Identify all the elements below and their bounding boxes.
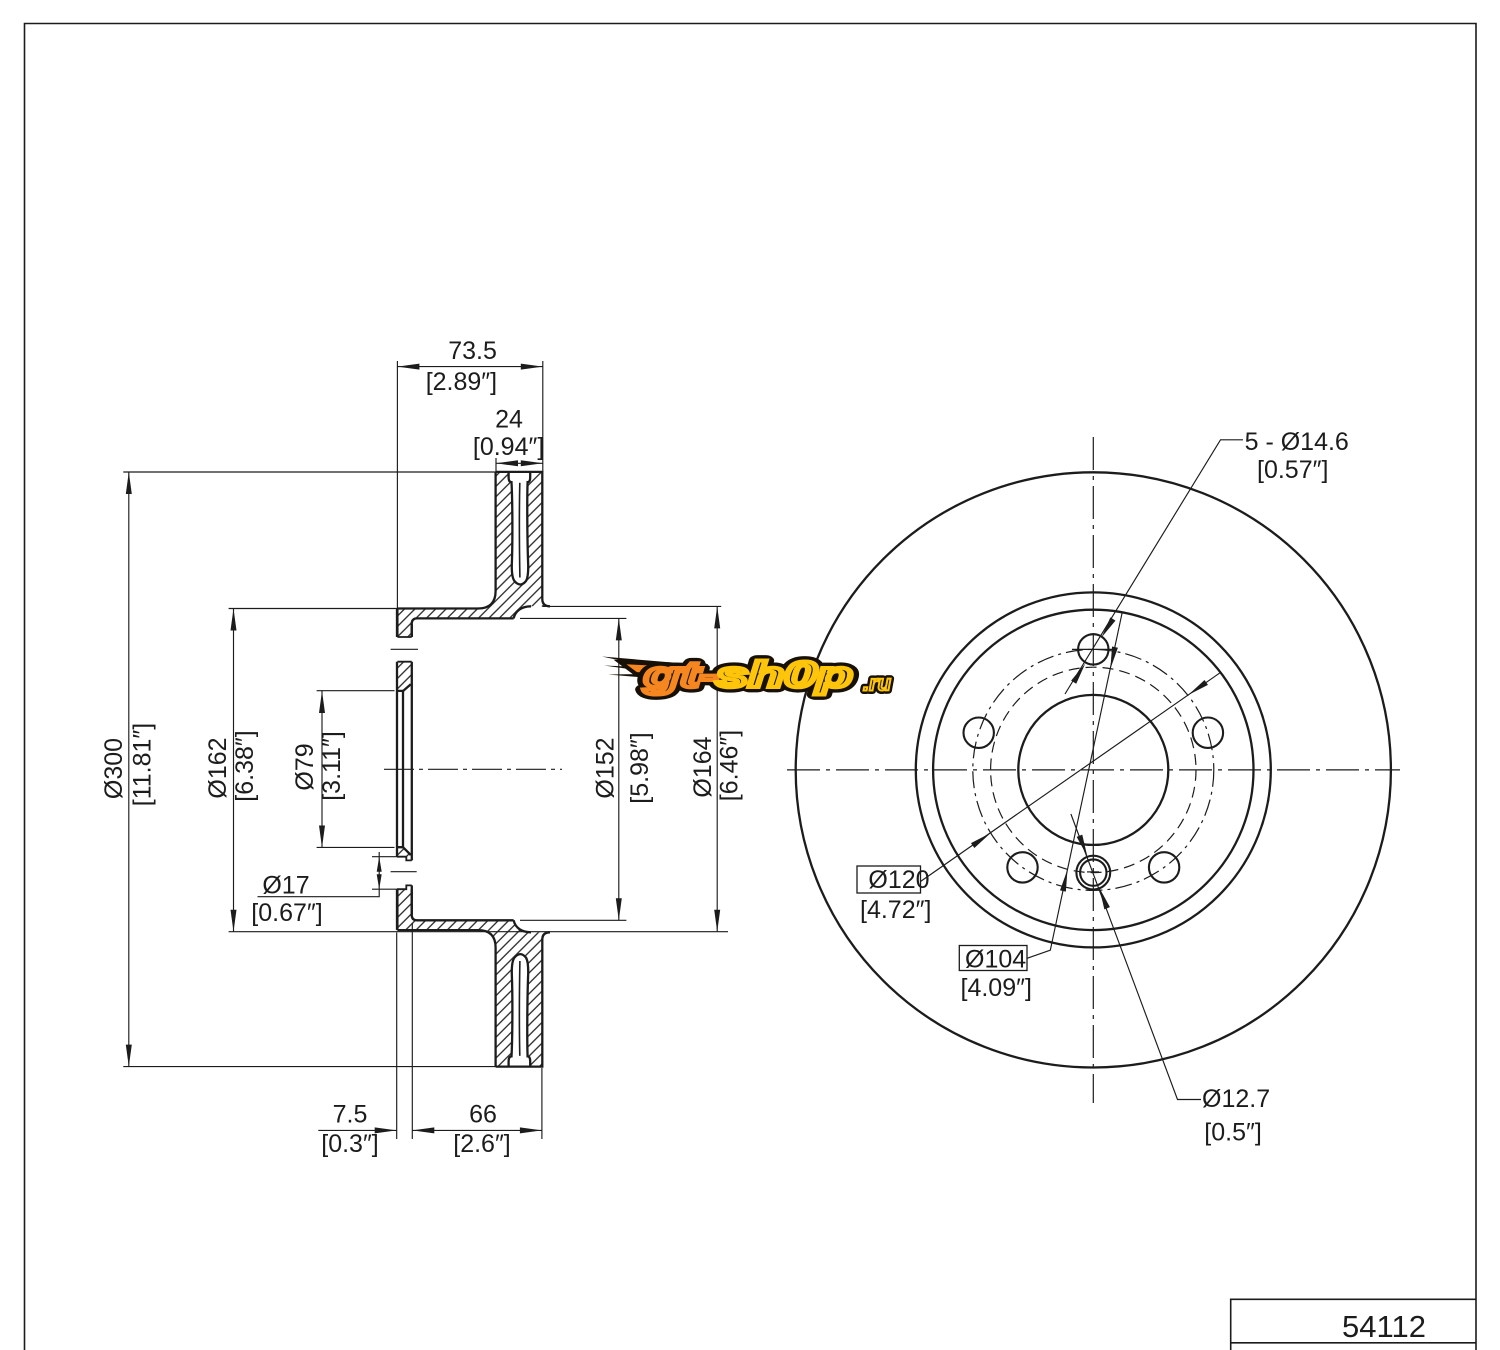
- svg-text:Ø164: Ø164: [689, 736, 717, 797]
- vane middle line top: [518, 483, 520, 578]
- svg-text:[11.81″]: [11.81″]: [129, 723, 157, 806]
- arrow O162 top: [231, 609, 237, 631]
- hub mounting face line: [396, 609, 398, 930]
- arrow 66 right: [520, 1127, 542, 1133]
- 66 dim line: [412, 1129, 542, 1131]
- svg-text:gt-: gt-: [643, 655, 719, 695]
- arrow O12.7 lower: [1096, 887, 1109, 910]
- Ø104 dashed circle: [991, 667, 1196, 872]
- set screw hole Ø17 outer: [1076, 856, 1110, 890]
- hatched metal: hub wall band above set screw hole (bottom): [397, 847, 412, 857]
- arrow 24 left: [496, 460, 518, 466]
- set screw hole edges: [397, 857, 412, 890]
- svg-text:Ø17: Ø17: [262, 871, 309, 899]
- Ø162 ext top: [229, 608, 398, 610]
- svg-text:Ø162: Ø162: [204, 737, 232, 798]
- svg-text:Ø120: Ø120: [868, 866, 929, 894]
- bolt hole lower-left: [1007, 852, 1037, 882]
- svg-text:[4.72″]: [4.72″]: [860, 896, 931, 924]
- svg-text:[6.46″]: [6.46″]: [716, 730, 744, 801]
- section outline top block: [397, 472, 550, 1067]
- svg-text:73.5: 73.5: [448, 337, 497, 365]
- svg-text:[6.38″]: [6.38″]: [231, 730, 259, 801]
- arrow O79 top: [319, 691, 325, 713]
- svg-text:Ø104: Ø104: [965, 946, 1026, 974]
- hub inner face line: [411, 624, 413, 915]
- arrow O12.7 upper: [1077, 835, 1090, 858]
- arrow O162 bottom: [231, 910, 237, 932]
- arrow O300 top: [126, 472, 132, 494]
- section centerline: [384, 768, 562, 770]
- bolt hole upper-left: [964, 718, 994, 748]
- friction ring inner circle 2 (Ø164): [933, 610, 1253, 930]
- ext line top Ø300: [123, 471, 543, 473]
- watermark orange wedge: [620, 662, 707, 680]
- svg-text:.ru: .ru: [863, 670, 892, 695]
- leader Ø120: [921, 673, 1221, 882]
- Ø17 dim line + leader: [258, 852, 380, 897]
- svg-text:Ø152: Ø152: [592, 737, 620, 798]
- watermark speed lines: [602, 657, 680, 679]
- arrow 5-O14.6 at hole top: [1099, 617, 1116, 639]
- leader 5-Ø14.6: [1065, 440, 1243, 694]
- svg-text:[0.94″]: [0.94″]: [473, 433, 544, 461]
- svg-text:[4.09″]: [4.09″]: [961, 974, 1032, 1002]
- watermark .ru: [863, 670, 892, 695]
- bolt circle Ø120 dash-dot: [973, 649, 1214, 890]
- Ø164 dim line: [716, 606, 718, 931]
- bolt hole lower-right: [1149, 852, 1179, 882]
- arrow O104 lower: [1060, 869, 1070, 892]
- arrow O120 lower-left: [971, 831, 992, 849]
- 24 vertical: [495, 458, 497, 472]
- svg-text:Ø300: Ø300: [100, 738, 128, 799]
- section outline bottom block: [397, 889, 550, 1066]
- Ø17 ext ticks: [372, 856, 398, 858]
- arrow 7.5 right: [375, 1127, 397, 1133]
- bore far edge line: [402, 691, 404, 847]
- leader Ø104: [1027, 612, 1122, 958]
- set screw hole Ø12.7 inner: [1080, 859, 1106, 885]
- arrow 73.5 right: [521, 364, 543, 370]
- bolt hole edges in hub wall: [397, 637, 412, 889]
- arrow O17 bottom: [377, 874, 382, 889]
- svg-text:24: 24: [495, 405, 523, 433]
- bolt hole top: [1078, 634, 1108, 664]
- 73.5 verticals: [396, 361, 398, 609]
- bore chamfer bottom: [403, 847, 411, 855]
- svg-text:[0.3″]: [0.3″]: [321, 1130, 379, 1158]
- svg-text:Ø79: Ø79: [291, 743, 319, 790]
- Ø162 dim line: [233, 609, 235, 932]
- arrow O164 top: [714, 606, 720, 628]
- arrow O120 upper-right: [1186, 680, 1207, 698]
- Ø162/Ø164 ext bottom (long): [229, 931, 728, 933]
- svg-text:sh0p: sh0p: [716, 655, 853, 695]
- svg-text:[5.98″]: [5.98″]: [626, 732, 654, 803]
- Ø120 label box: [857, 866, 921, 893]
- arrow 66 left: [412, 1127, 434, 1133]
- arrow 5-O14.6 at hole bottom: [1071, 662, 1088, 684]
- title block row: [1231, 1299, 1476, 1350]
- Ø79 ext bottom: [317, 846, 395, 848]
- svg-text:[0.5″]: [0.5″]: [1204, 1119, 1262, 1147]
- Ø79 dim line: [321, 691, 323, 848]
- arrow O17 top: [377, 857, 382, 872]
- horizontal centerline: [787, 769, 1400, 771]
- bore mouth edges: [397, 691, 403, 847]
- 24 dim line: [496, 462, 543, 464]
- 7.5 dim line: [318, 1129, 396, 1131]
- arrow O164 bottom: [714, 910, 720, 932]
- svg-text:54112: 54112: [1342, 1309, 1426, 1344]
- bottom ext lines: [396, 933, 398, 1140]
- arrow O104 upper: [1107, 647, 1117, 670]
- bolt hole upper-right: [1193, 718, 1223, 748]
- vane middle line bottom: [518, 961, 520, 1056]
- Ø164 ext top: [542, 605, 721, 607]
- 73.5 dim line: [397, 366, 542, 368]
- hub bore Ø79: [1018, 695, 1168, 845]
- arrow O152 top: [616, 618, 622, 640]
- Ø79 ext top: [317, 690, 395, 692]
- top bolt hole tick: [1072, 648, 1115, 650]
- friction ring inner circle 1: [916, 592, 1271, 947]
- hatched metal: bottom ring block + flange + hub corner: [397, 889, 550, 1066]
- arrow 24 right: [521, 460, 543, 466]
- Ø152 ext top: [520, 617, 626, 619]
- svg-text:[3.11″]: [3.11″]: [318, 731, 346, 801]
- svg-text:[2.89″]: [2.89″]: [426, 368, 497, 396]
- bolt hole tick (section): [391, 648, 418, 650]
- leader Ø12.7: [1071, 814, 1201, 1100]
- front view arrowheads: [971, 617, 1208, 909]
- outer circle Ø300: [796, 472, 1391, 1067]
- set screw hole tick: [1087, 871, 1099, 873]
- set screw hole tick (section): [391, 871, 417, 873]
- bore chamfer top: [403, 684, 411, 691]
- svg-text:[0.57″]: [0.57″]: [1257, 456, 1328, 484]
- Ø152 dim line: [618, 618, 620, 920]
- arrow O300 bottom: [126, 1045, 132, 1067]
- Ø300 dim line: [128, 472, 130, 1067]
- svg-text:Ø12.7: Ø12.7: [1202, 1085, 1270, 1113]
- vertical centerline: [1092, 437, 1094, 1103]
- arrow 73.5 left: [397, 364, 419, 370]
- svg-text:[0.67″]: [0.67″]: [251, 899, 322, 927]
- ext line bottom Ø300: [123, 1066, 543, 1068]
- arrow O79 bottom: [319, 826, 325, 848]
- svg-text:5 - Ø14.6: 5 - Ø14.6: [1245, 428, 1349, 456]
- Ø104 label box: [959, 946, 1027, 971]
- svg-text:[2.6″]: [2.6″]: [453, 1130, 511, 1158]
- svg-text:7.5: 7.5: [333, 1101, 368, 1129]
- arrow O152 bottom: [616, 898, 622, 920]
- hatched metal: hub wall band below bolt hole (top): [397, 662, 412, 691]
- hatched metal: top ring block + flange + hub corner: [397, 472, 550, 637]
- svg-text:66: 66: [469, 1101, 497, 1129]
- Ø152 ext bottom: [520, 919, 626, 921]
